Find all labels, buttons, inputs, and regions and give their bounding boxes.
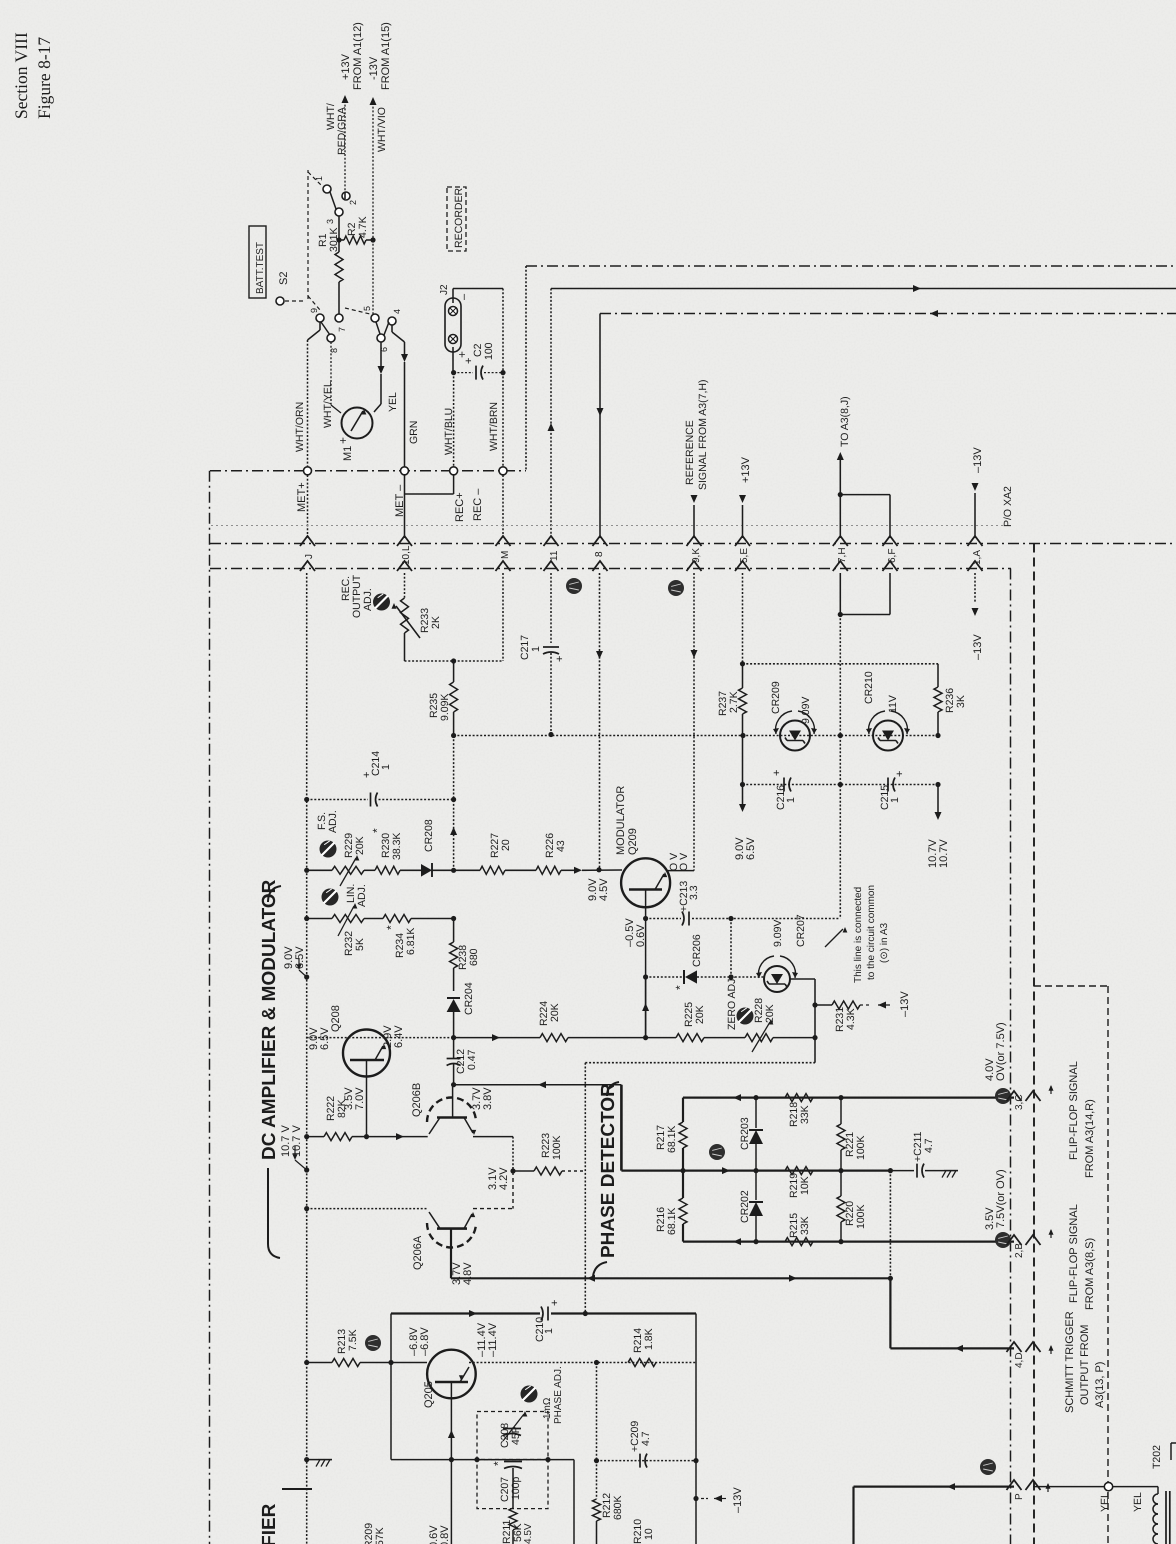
resistor R221 100K (837, 1124, 845, 1150)
resistor R214 1.8K (628, 1359, 656, 1367)
wire Q205 emitter to R214 line (469, 1362, 696, 1364)
wire contact9 to MET+ (319, 322, 321, 330)
diode CR202 (755, 1171, 757, 1200)
node 10.7V below R236 (937, 785, 939, 815)
svg-text:7.5K: 7.5K (347, 1329, 359, 1351)
switch S2 wafer contacts 1 2 3 (323, 185, 331, 193)
svg-text:10.7 V: 10.7 V (291, 1125, 303, 1157)
capacitor C217 1 (550, 573, 552, 643)
wire 8 column down to Q209 collector node (599, 573, 601, 870)
svg-text:3K: 3K (955, 695, 967, 708)
connector row 1 dash-dot (210, 543, 1176, 545)
connector pin J chevrons (300, 536, 315, 546)
resistor R226 43 (536, 866, 561, 874)
svg-text:3,C: 3,C (1014, 1094, 1025, 1110)
svg-text:9.09K: 9.09K (439, 694, 451, 721)
svg-text:–13V: –13V (972, 634, 984, 660)
svg-text:2: 2 (348, 200, 358, 205)
svg-text:ADJ.: ADJ. (356, 884, 368, 907)
svg-text:Q206B: Q206B (411, 1083, 423, 1117)
svg-text:45P: 45P (510, 1426, 522, 1445)
wire Q209 base column lower (645, 977, 647, 1038)
svg-text:PHASE ADJ.: PHASE ADJ. (553, 1366, 564, 1424)
pin P chevrons (1007, 1480, 1022, 1490)
annotation circuit common note (825, 929, 843, 947)
chassis boundary dash-dot top (210, 470, 526, 472)
wire Q208 emitter down (366, 1077, 368, 1137)
wire MET- to pin 10,L (404, 475, 406, 538)
connector pin 10,L chevrons (397, 536, 412, 546)
switch S2 mechanical dashed linkage (285, 300, 305, 302)
svg-text:WHT/BRN: WHT/BRN (488, 402, 500, 451)
pin 2,B chevrons (1007, 1235, 1022, 1245)
svg-text:CR206: CR206 (691, 934, 703, 967)
svg-text:FLIP-FLOP SIGNAL: FLIP-FLOP SIGNAL (1068, 1061, 1080, 1160)
transistor Q208 (307, 1037, 454, 1039)
svg-text:11: 11 (549, 550, 560, 561)
resistor R222 82K (307, 1136, 324, 1138)
capacitor C207 100p box (477, 1460, 548, 1509)
wire pin 10,L to R233 (404, 573, 406, 598)
svg-text:M: M (500, 551, 511, 559)
svg-text:*: * (491, 1461, 505, 1466)
svg-text:20K: 20K (764, 1004, 776, 1023)
svg-text:+: + (894, 771, 906, 777)
wire -13V from A1(15) (372, 99, 374, 238)
svg-text:–13V: –13V (732, 1487, 744, 1513)
svg-text:4.7: 4.7 (923, 1138, 935, 1153)
wire left column to bottom (306, 1363, 308, 1544)
svg-text:20: 20 (500, 839, 512, 851)
svg-text:9: 9 (309, 308, 319, 313)
potentiometer R228 20K ZERO ADJ (737, 1008, 754, 1025)
svg-text:1mΩ: 1mΩ (542, 1397, 553, 1419)
wire R214 node down x696 (695, 1314, 697, 1363)
wire signal line y1278 (451, 1277, 890, 1279)
wire contact5 down from -13V (372, 240, 374, 314)
resistor R237 2.7K (739, 688, 747, 714)
svg-text:FROM A3(14,R): FROM A3(14,R) (1084, 1099, 1096, 1178)
svg-text:S2: S2 (278, 272, 290, 285)
wire CR207 node down (814, 979, 816, 1063)
svg-text:-13V: -13V (368, 56, 380, 80)
wire pin 5,E +13V stub (742, 505, 744, 538)
screw PHASE ADJ 1mohm (521, 1386, 538, 1403)
wire node rail y1063 (585, 1062, 815, 1064)
svg-text:680: 680 (468, 948, 480, 966)
svg-text:ZERO ADJ.: ZERO ADJ. (726, 976, 738, 1030)
svg-text:100K: 100K (551, 1135, 563, 1160)
resistor R220 100K (837, 1196, 845, 1222)
svg-text:+: + (463, 358, 475, 364)
capacitor C211 4.7 and ground (890, 1170, 914, 1172)
svg-text:8: 8 (594, 551, 605, 557)
diode CR203 (755, 1098, 757, 1128)
transistor Q206A dashed (427, 1223, 476, 1248)
svg-text:YEL: YEL (387, 392, 399, 412)
bus line 3 dash-dot from A1 (600, 313, 1176, 315)
svg-text:*: * (370, 828, 384, 833)
transistor Q209 modulator (621, 858, 670, 907)
svg-text:68.1K: 68.1K (666, 1126, 678, 1153)
wire contact8 to meter (330, 342, 332, 405)
wire Q206A collector down (450, 1229, 452, 1279)
wire schmitt output to pin P (854, 1485, 1015, 1487)
svg-text:20K: 20K (549, 1003, 561, 1022)
wire left box vertical x391 (390, 1314, 392, 1460)
capacitor C210 1 (541, 1307, 543, 1321)
svg-text:68.1K: 68.1K (666, 1208, 678, 1235)
resistor R219 10K (785, 1167, 813, 1175)
resistor R2 4.7K (339, 239, 344, 241)
resistor R213 7.5K (307, 1362, 332, 1364)
junction MET+ on chassis (304, 467, 312, 475)
svg-text:4.7: 4.7 (640, 1431, 652, 1446)
resistor R211 56K (509, 1508, 517, 1530)
wire modulator drive line to Q209 (454, 869, 480, 871)
resistor R235 9.09K (453, 661, 455, 682)
phase detector top line (683, 1096, 1014, 1098)
svg-text:Figure 8-17: Figure 8-17 (34, 37, 54, 119)
wire 9,K to Q209 emitter (668, 870, 694, 872)
resistor R230 38.3K (375, 866, 400, 874)
svg-text:0.8V: 0.8V (439, 1525, 451, 1544)
wire F.S. line (307, 869, 332, 871)
svg-text:680K: 680K (612, 1495, 624, 1520)
svg-text:9.09V: 9.09V (772, 920, 784, 947)
svg-text:REC –: REC – (472, 488, 484, 521)
svg-text:CR210: CR210 (863, 671, 875, 704)
svg-text:MODULATOR: MODULATOR (615, 786, 627, 855)
reference marker bubble 13 (668, 580, 684, 596)
reference marker bubble 14 (709, 1144, 725, 1160)
svg-text:–6.8V: –6.8V (419, 1327, 431, 1356)
svg-text:2K: 2K (430, 616, 442, 629)
reference marker bubble 16 (980, 1459, 996, 1475)
svg-text:T202: T202 (1151, 1445, 1163, 1469)
svg-text:43: 43 (555, 840, 567, 852)
svg-text:2.7K: 2.7K (728, 691, 740, 713)
connector pin 9,K chevrons (687, 536, 702, 546)
svg-text:38.3K: 38.3K (391, 833, 403, 860)
capacitor C2 100 (454, 372, 473, 374)
svg-text:AMPLIFIER: AMPLIFIER (259, 1503, 280, 1544)
svg-text:1.8K: 1.8K (643, 1328, 655, 1350)
svg-text:+13V: +13V (740, 456, 752, 483)
capacitor C213 3.3 line (646, 918, 681, 920)
svg-text:CR202: CR202 (739, 1190, 751, 1223)
svg-text:RED/GRA: RED/GRA (336, 107, 348, 155)
svg-text:3.3: 3.3 (688, 885, 700, 900)
svg-text:FLIP-FLOP SIGNAL: FLIP-FLOP SIGNAL (1068, 1204, 1080, 1303)
wire MET+ to pin J (307, 475, 309, 538)
connector pin 1,A chevrons (968, 536, 983, 546)
diode CR206 line (646, 976, 682, 978)
resistor R218 33K (785, 1094, 813, 1102)
svg-text:1: 1 (785, 797, 797, 803)
svg-text:Q206A: Q206A (412, 1235, 424, 1270)
svg-text:33K: 33K (799, 1105, 811, 1124)
capacitor C215 1 (887, 778, 889, 792)
wire Q206B right lead to R223 node (473, 1136, 513, 1138)
svg-text:O V: O V (678, 853, 690, 871)
svg-text:0.6V: 0.6V (635, 924, 647, 947)
wire Q206A right lead (473, 1208, 513, 1210)
wire J2 bottom to REC+ column (452, 347, 454, 373)
svg-text:ADJ.: ADJ. (327, 810, 339, 833)
resistor R238 680 (453, 919, 455, 943)
junction MET- on chassis (401, 467, 409, 475)
connector pin 8 chevrons (593, 536, 608, 546)
capacitor C214 line (307, 799, 368, 801)
faint cable line (211, 525, 1003, 527)
capacitor C216 1 (783, 778, 785, 792)
svg-text:*: * (673, 985, 687, 990)
svg-text:YEL: YEL (1132, 1492, 1144, 1512)
zener diode CR210 11V (873, 721, 903, 751)
svg-text:5,E: 5,E (739, 548, 750, 563)
svg-text:1: 1 (530, 646, 542, 652)
potentiometer R232 5K LIN ADJ (307, 918, 332, 920)
wire REC- to pin M (502, 475, 504, 538)
connector row 2 dash-dot (210, 568, 1011, 570)
capacitor C209 4.7 line (597, 1460, 697, 1462)
svg-text:6.81K: 6.81K (405, 928, 417, 955)
meter M1 (342, 408, 373, 439)
wire -13V bottom stub (695, 1461, 697, 1544)
zener diode CR207 9.09V (731, 976, 765, 978)
resistor R236 3K (937, 664, 939, 687)
svg-text:2,B: 2,B (1014, 1243, 1025, 1258)
svg-text:FROM A1(12): FROM A1(12) (352, 22, 364, 90)
svg-text:100p: 100p (510, 1476, 522, 1500)
svg-text:J: J (304, 554, 315, 559)
svg-text:SCHMITT TRIGGER: SCHMITT TRIGGER (1064, 1311, 1076, 1413)
resistor R215 33K (785, 1238, 813, 1246)
svg-text:Q205: Q205 (423, 1381, 435, 1408)
wire capacitor rail (742, 736, 744, 785)
svg-text:REFERENCE: REFERENCE (684, 420, 696, 485)
wire emitter rail to Q206B (367, 1136, 428, 1138)
svg-text:20K: 20K (354, 836, 366, 855)
svg-text:+: + (554, 656, 566, 662)
resistor R224 20K (454, 1037, 460, 1039)
wire x596 down (596, 1363, 598, 1461)
svg-text:(⊙) in A3: (⊙) in A3 (879, 923, 890, 963)
wire y1085 line to phase detector (454, 1084, 622, 1086)
svg-text:10: 10 (643, 1528, 655, 1540)
wire bus2 down to pin 11 (550, 289, 552, 539)
svg-text:SIGNAL FROM A3(7,H): SIGNAL FROM A3(7,H) (697, 380, 709, 490)
svg-text:ADJ.: ADJ. (362, 588, 374, 611)
svg-text:10K: 10K (799, 1176, 811, 1195)
svg-text:WHT/VIO: WHT/VIO (376, 107, 388, 152)
svg-text:C214: C214 (370, 751, 382, 776)
svg-text:1: 1 (543, 1328, 555, 1334)
svg-text:9,K: 9,K (691, 548, 702, 563)
svg-text:OUTPUT FROM: OUTPUT FROM (1079, 1325, 1091, 1405)
wire contact2 to +13V (344, 192, 346, 199)
svg-text:Q209: Q209 (627, 828, 639, 855)
svg-text:CR203: CR203 (739, 1117, 751, 1150)
svg-text:+: + (455, 351, 469, 358)
wire left column J down (306, 573, 308, 1363)
resistor R223 100K (510, 1168, 515, 1173)
svg-text:7.0V: 7.0V (354, 1087, 366, 1110)
svg-text:J2: J2 (439, 284, 450, 295)
svg-text:to the circuit common: to the circuit common (866, 885, 877, 980)
wire pin 1,A -13V stub (974, 493, 976, 538)
wire pin 1,A internal stub (974, 573, 976, 602)
ground symbol left column (304, 1457, 309, 1462)
phase detector bottom line (683, 1240, 1014, 1242)
wire signal to 4,D (889, 1278, 891, 1348)
connector boundary vertical dash-dot outer (1033, 544, 1035, 1544)
svg-text:GRN: GRN (408, 421, 420, 444)
right label box dash-dot (1034, 985, 1108, 987)
svg-text:57K: 57K (374, 1527, 386, 1544)
resistor R225 20K (646, 1037, 676, 1039)
svg-text:1,A: 1,A (972, 550, 983, 565)
wire pin P to transformer T202 (1033, 1486, 1104, 1488)
wire contact6 to meter YEL (380, 342, 382, 372)
svg-text:100K: 100K (855, 1204, 867, 1229)
svg-text:P/O XA2: P/O XA2 (1002, 486, 1014, 527)
svg-text:4.8V: 4.8V (462, 1262, 474, 1285)
capacitor C212 0.47 (447, 1058, 461, 1060)
junction REC- on chassis (499, 467, 507, 475)
svg-text:WHT/BLU: WHT/BLU (443, 408, 455, 455)
svg-text:Q208: Q208 (330, 1005, 342, 1032)
svg-text:4.5V: 4.5V (598, 878, 610, 901)
resistor R216 68.1K (679, 1198, 687, 1224)
label box RECORDER (447, 187, 466, 251)
wire Q205 collector down (450, 1398, 452, 1544)
svg-text:10,L: 10,L (401, 545, 412, 565)
wire contact4 to MET- GRN (391, 325, 393, 332)
svg-text:M1: M1 (342, 446, 354, 461)
svg-text:1: 1 (380, 764, 392, 770)
connector pin 6,F chevrons (883, 536, 898, 546)
component box top right of T202 (1171, 1442, 1176, 1444)
svg-text:100K: 100K (855, 1135, 867, 1160)
wire bus3 down to pin 8 (599, 314, 601, 539)
wire R235 column mid (453, 736, 455, 871)
svg-text:0.47: 0.47 (466, 1049, 478, 1070)
svg-text:–13V: –13V (972, 447, 984, 473)
pin 4,D chevrons (1007, 1342, 1022, 1352)
svg-text:11V: 11V (887, 695, 899, 713)
wire R236 feed rail (743, 663, 939, 665)
svg-text:5: 5 (362, 306, 372, 311)
svg-text:7.5V(or OV): 7.5V(or OV) (995, 1169, 1007, 1228)
reference marker bubble 11 (995, 1232, 1011, 1248)
svg-text:P: P (1014, 1493, 1025, 1500)
svg-text:1: 1 (889, 797, 901, 803)
svg-text:33K: 33K (799, 1216, 811, 1235)
svg-text:A3(13, P): A3(13, P) (1094, 1362, 1106, 1408)
junction REC+ on chassis (450, 467, 458, 475)
connector pin 7,H chevrons (833, 536, 848, 546)
resistor R231 4.3K to -13V (815, 1004, 832, 1006)
svg-text:+: + (771, 770, 783, 776)
svg-text:4.5V: 4.5V (523, 1523, 534, 1544)
svg-text:Section VIII: Section VIII (11, 32, 31, 119)
wire REC- column lower (502, 373, 504, 467)
bus line 2 solid to A1 (551, 288, 1176, 290)
svg-text:–: – (458, 293, 470, 300)
resistor R212 680K (596, 1461, 598, 1499)
diode CR204 (447, 997, 460, 999)
resistor R217 68.1K (682, 1098, 684, 1122)
svg-text:6.4V: 6.4V (393, 1025, 405, 1048)
svg-text:4.7K: 4.7K (357, 216, 369, 238)
potentiometer R229 20K F.S. ADJ (332, 866, 364, 874)
reference marker bubble 15 (566, 578, 582, 594)
wire C211 node down to signal line (889, 1171, 891, 1279)
svg-text:YEL: YEL (1099, 1492, 1111, 1512)
wire Q206A base line (307, 1208, 428, 1210)
svg-text:6.5V: 6.5V (745, 837, 757, 860)
svg-text:1: 1 (314, 176, 324, 181)
pin 3,C chevrons (1007, 1091, 1022, 1101)
svg-text:9.09V: 9.09V (800, 697, 812, 724)
svg-text:+: + (549, 1300, 561, 1306)
resistor R1 301K (338, 216, 340, 252)
svg-text:MET+: MET+ (296, 482, 308, 512)
svg-text:4.2V: 4.2V (498, 1167, 510, 1190)
svg-text:*: * (384, 925, 398, 930)
svg-text:CR209: CR209 (770, 681, 782, 714)
svg-text:100: 100 (483, 342, 495, 360)
svg-text:4,D: 4,D (1014, 1352, 1025, 1368)
reference marker bubble 10 (365, 1335, 381, 1351)
svg-text:CR208: CR208 (423, 819, 435, 852)
svg-text:7: 7 (337, 327, 347, 332)
phase detector mid line (621, 1169, 890, 1171)
wire +13V from A1(12) (344, 97, 346, 192)
svg-text:4: 4 (392, 309, 402, 314)
transistor Q206B dashed (427, 1098, 476, 1123)
svg-text:PHASE DETECTOR: PHASE DETECTOR (598, 1083, 619, 1258)
svg-text:This line is connected: This line is connected (853, 887, 864, 983)
board boundary dash-dot left (209, 471, 211, 1544)
svg-text:–13V: –13V (899, 991, 911, 1017)
wire +13V column 5,E down (742, 573, 744, 664)
svg-text:6,F: 6,F (887, 549, 898, 563)
zener diode CR209 9.09V (780, 721, 810, 751)
svg-text:FROM A3(8,S): FROM A3(8,S) (1084, 1238, 1096, 1310)
wire x585 vertical (584, 1063, 586, 1314)
connector boundary vertical dash-dot inner (1010, 569, 1012, 1544)
wire pin M down to node (502, 573, 504, 661)
wire R233 bottom to node (404, 633, 406, 661)
wire J2 top to REC- column (452, 289, 454, 304)
diode CR208 (421, 864, 432, 877)
wire amplifier rail y1460 (391, 1459, 574, 1461)
svg-text:4.3K: 4.3K (845, 1008, 857, 1030)
reference marker bubble 12 (995, 1088, 1011, 1104)
svg-text:5K: 5K (354, 938, 366, 951)
resistor R234 6.81K (364, 918, 383, 920)
svg-text:WHT/ORN: WHT/ORN (294, 402, 306, 452)
svg-text:10.7V: 10.7V (938, 839, 950, 868)
wire C210 line (391, 1312, 540, 1314)
svg-text:7,H: 7,H (837, 547, 848, 563)
svg-text:20K: 20K (694, 1005, 706, 1024)
wire REC+ jog to MET- column (453, 475, 455, 494)
svg-text:3: 3 (325, 219, 335, 224)
